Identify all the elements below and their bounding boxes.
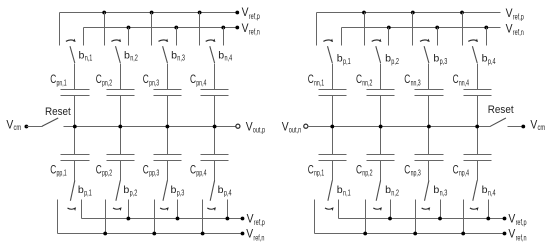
wire: left V_ref,n bottom rail — [58, 233, 243, 235]
switch b_n,3 blade — [425, 180, 429, 200]
switch b_p,1 blade — [70, 180, 74, 200]
svg-text:nn,2: nn,2 — [362, 78, 372, 87]
svg-text:C: C — [96, 162, 102, 176]
svg-text:b: b — [385, 185, 391, 196]
terminal V_cm (left) — [25, 125, 29, 129]
capacitor C_pn,1 bottom lead — [74, 96, 76, 127]
wire: right V_ref,n bottom rail — [315, 233, 505, 235]
capacitor C_pp,1 — [50, 127, 89, 181]
svg-text:b: b — [337, 185, 343, 196]
switch b_n,3 blade — [163, 46, 168, 63]
switch b_n,2 (left top) — [105, 13, 138, 64]
capacitor C_nn,2 plates — [367, 89, 395, 91]
switch b_n,4 (left top) — [200, 13, 233, 64]
switch b_p,4 left contact wire (to V_ref,p) — [462, 13, 464, 46]
capacitor C_np,3 plates — [415, 154, 444, 156]
capacitor C_np,4 bottom lead — [477, 161, 479, 181]
switch b_n,4 blade — [473, 180, 477, 200]
svg-text:pn,1: pn,1 — [57, 78, 67, 87]
switch b_p,3 (left bottom) — [155, 180, 185, 233]
switch b_n,1 (left top) — [60, 13, 93, 64]
switch b_n,3 (right bottom) — [416, 180, 448, 233]
switch b_p,4 left contact wire (to V_ref,n) — [202, 200, 204, 234]
capacitor C_np,1 — [308, 127, 347, 181]
svg-text:b: b — [218, 50, 224, 61]
switch b_p,3 toggle arrow — [420, 40, 428, 41]
svg-text:C: C — [356, 162, 362, 176]
switch b_p,2 blade — [116, 180, 120, 200]
svg-text:b: b — [171, 50, 177, 61]
svg-text:out,n: out,n — [289, 126, 301, 135]
svg-text:C: C — [96, 72, 102, 86]
switch b_n,4 toggle arrow — [470, 208, 478, 209]
switch b_n,1 blade — [70, 46, 75, 63]
switch b_p,3 left contact wire (to V_ref,n) — [154, 200, 156, 234]
switch b_n,2 left contact wire (to V_ref,n) — [365, 200, 367, 234]
svg-text:C: C — [308, 162, 314, 176]
svg-text:n,1: n,1 — [85, 54, 93, 63]
capacitor C_pp,2 plates — [107, 154, 135, 156]
switch b_n,4 (right bottom) — [464, 180, 497, 233]
svg-text:p,4: p,4 — [224, 189, 232, 198]
capacitor C_np,4 top lead — [477, 127, 479, 155]
svg-text:np,4: np,4 — [459, 169, 470, 178]
wire: right V_ref,n top rail — [342, 27, 501, 29]
svg-text:pn,4: pn,4 — [196, 78, 206, 87]
terminal V_ref,n (right bottom) — [503, 232, 507, 236]
svg-text:V: V — [242, 22, 249, 35]
capacitor C_np,4 plates — [464, 154, 492, 156]
svg-text:pp,3: pp,3 — [149, 169, 160, 178]
switch b_n,3 toggle arrow — [422, 208, 430, 209]
capacitor C_np,1 top lead — [332, 127, 334, 155]
junction dots on right middle rail — [330, 125, 334, 129]
wire: right middle rail (node V_out,n) — [308, 126, 491, 128]
terminal V_ref,p (right bottom) — [503, 217, 507, 221]
capacitor C_pp,2 top lead — [120, 127, 122, 155]
switch b_n,1 (right bottom) — [315, 180, 351, 233]
capacitor C_np,2 bottom lead — [380, 161, 382, 181]
switch b_n,2 left contact wire (to V_ref,p) — [104, 13, 106, 46]
switch b_p,3 left contact wire (to V_ref,p) — [412, 13, 414, 46]
switch b_p,3 right contact wire (to V_ref,n) — [437, 28, 439, 46]
capacitor C_nn,1 plates — [319, 89, 347, 91]
svg-text:b: b — [123, 185, 129, 196]
capacitor C_pp,4 plates — [201, 154, 229, 156]
switch b_p,4 blade — [210, 180, 214, 200]
svg-text:p,1: p,1 — [84, 189, 92, 198]
svg-text:nn,3: nn,3 — [411, 78, 421, 87]
svg-text:pn,3: pn,3 — [149, 78, 159, 87]
switch b_n,4 right contact wire (to V_ref,p) — [488, 200, 490, 219]
svg-text:p,1: p,1 — [343, 57, 351, 66]
capacitor C_pp,4 top lead — [214, 127, 216, 155]
svg-text:b: b — [218, 185, 224, 196]
svg-text:pp,1: pp,1 — [57, 169, 68, 178]
svg-text:ref,n: ref,n — [249, 28, 260, 37]
svg-text:n,3: n,3 — [440, 189, 448, 198]
terminal V_ref,n (left bottom) — [241, 232, 245, 236]
switch b_n,3 toggle arrow — [159, 40, 167, 41]
switch b_n,4 left contact wire (to V_ref,n) — [463, 200, 465, 234]
svg-text:ref,n: ref,n — [513, 28, 524, 37]
switch b_p,2 blade — [376, 46, 381, 63]
svg-text:pp,2: pp,2 — [102, 169, 113, 178]
switch b_p,2 left contact wire (to V_ref,n) — [105, 200, 107, 234]
svg-text:ref,p: ref,p — [254, 218, 265, 227]
svg-text:V: V — [506, 22, 513, 35]
svg-text:V: V — [506, 7, 513, 20]
capacitor C_pp,3 bottom lead — [167, 161, 169, 181]
svg-text:ref,p: ref,p — [513, 13, 524, 22]
junction dots on left middle rail — [73, 125, 77, 129]
switch b_p,3 right contact wire (to V_ref,p) — [177, 200, 179, 219]
svg-text:C: C — [50, 162, 56, 176]
capacitor C_pp,1 top lead — [74, 127, 76, 155]
switch b_n,1 right contact wire (to V_ref,p) — [338, 200, 340, 219]
svg-text:ref,n: ref,n — [516, 233, 527, 242]
capacitor C_nn,3 bottom lead — [428, 96, 430, 127]
svg-text:out,p: out,p — [253, 126, 266, 135]
switch Reset (right) blade — [490, 118, 506, 126]
switch b_n,2 right contact wire (to V_ref,n) — [128, 28, 130, 46]
capacitor C_pp,2 — [96, 127, 135, 181]
svg-text:ref,n: ref,n — [253, 233, 264, 242]
svg-text:nn,1: nn,1 — [314, 78, 324, 87]
wire: left V_ref,p bottom rail — [82, 218, 243, 220]
svg-text:pp,4: pp,4 — [196, 169, 207, 178]
switch b_p,2 left contact wire (to V_ref,p) — [364, 13, 366, 46]
svg-text:V: V — [242, 6, 249, 19]
svg-text:C: C — [143, 72, 149, 86]
wire: V_cm stub (right) — [508, 126, 524, 128]
svg-text:b: b — [385, 54, 391, 65]
svg-text:ref,p: ref,p — [516, 218, 527, 227]
svg-text:b: b — [433, 54, 439, 65]
svg-text:V: V — [282, 121, 289, 134]
switch Reset (left) blade — [42, 118, 58, 126]
switch b_p,1 left contact wire (to V_ref,p) — [316, 13, 318, 46]
capacitor C_pn,2 bottom lead — [120, 96, 122, 127]
svg-text:p,3: p,3 — [440, 57, 448, 66]
switch b_n,3 (left top) — [152, 13, 186, 64]
switch b_n,2 toggle arrow — [373, 208, 381, 209]
svg-text:C: C — [143, 162, 149, 176]
switch b_n,1 toggle arrow — [66, 40, 74, 41]
capacitor C_pn,1 top lead — [74, 64, 76, 90]
capacitor C_nn,4 bottom lead — [477, 96, 479, 127]
capacitor C_pn,4 — [190, 64, 229, 127]
capacitor C_pp,3 top lead — [167, 127, 169, 155]
switch b_p,4 (right top) — [463, 13, 497, 66]
switch b_p,2 right contact wire (to V_ref,p) — [128, 200, 130, 219]
wire: left V_ref,p top rail — [60, 12, 238, 14]
capacitor C_np,3 — [404, 127, 443, 181]
svg-text:n,4: n,4 — [225, 54, 233, 63]
svg-text:p,2: p,2 — [391, 57, 399, 66]
capacitor C_pp,2 bottom lead — [120, 161, 122, 181]
switch b_p,2 (left bottom) — [106, 180, 138, 233]
svg-text:np,3: np,3 — [411, 169, 422, 178]
svg-text:b: b — [482, 54, 488, 65]
terminal V_ref,n (left top) — [235, 26, 239, 30]
switch b_p,3 (right top) — [413, 13, 448, 66]
capacitor C_pn,4 bottom lead — [214, 96, 216, 127]
svg-text:V: V — [508, 212, 515, 225]
switch b_n,3 left contact wire (to V_ref,n) — [415, 200, 417, 234]
svg-text:Reset: Reset — [45, 106, 72, 118]
svg-text:C: C — [404, 162, 410, 176]
svg-text:b: b — [78, 185, 84, 196]
switch b_n,4 left contact wire (to V_ref,p) — [199, 13, 201, 46]
terminal V_cm (right) — [521, 125, 525, 129]
capacitor C_np,3 bottom lead — [428, 161, 430, 181]
capacitor C_np,4 — [453, 127, 492, 181]
svg-text:b: b — [337, 54, 343, 65]
svg-text:np,2: np,2 — [362, 169, 373, 178]
terminal V_out,p — [236, 124, 240, 128]
capacitor C_pn,4 top lead — [214, 64, 216, 90]
junction dots on right bottom rails — [388, 217, 392, 221]
svg-text:p,2: p,2 — [130, 189, 138, 198]
svg-text:C: C — [453, 162, 459, 176]
capacitor C_nn,3 top lead — [428, 64, 430, 90]
switch b_n,2 right contact wire (to V_ref,p) — [390, 200, 392, 219]
switch b_n,2 (right bottom) — [366, 180, 400, 233]
switch b_n,1 left contact wire (to V_ref,n) — [314, 200, 316, 234]
svg-text:V: V — [530, 119, 537, 132]
svg-text:np,1: np,1 — [314, 169, 325, 178]
switch b_n,4 toggle arrow — [206, 40, 214, 41]
capacitor C_pn,4 plates — [201, 89, 229, 91]
switch b_p,2 right contact wire (to V_ref,n) — [388, 28, 390, 46]
capacitor C_nn,1 — [308, 64, 347, 127]
switch b_p,2 toggle arrow — [372, 40, 380, 41]
switch b_p,1 (right top) — [317, 13, 351, 66]
capacitor C_pp,3 plates — [154, 154, 182, 156]
svg-text:ref,p: ref,p — [249, 12, 260, 21]
svg-text:b: b — [433, 185, 439, 196]
switch b_n,2 blade — [116, 46, 121, 63]
wire: right V_ref,p bottom rail — [339, 218, 505, 220]
switch b_n,4 right contact wire (to V_ref,n) — [223, 28, 225, 46]
switch b_p,3 toggle arrow — [160, 208, 168, 209]
junction dots on left top rails — [102, 11, 106, 15]
svg-text:C: C — [356, 72, 362, 86]
junction dots on right top rails — [362, 11, 366, 15]
svg-text:V: V — [246, 121, 253, 134]
capacitor C_pn,2 — [96, 64, 135, 127]
capacitor C_pp,3 — [143, 127, 182, 181]
switch b_n,1 toggle arrow — [325, 208, 333, 209]
junction dots on left bottom rails — [126, 217, 130, 221]
switch b_p,1 (left bottom) — [58, 180, 92, 233]
capacitor C_nn,3 — [404, 64, 443, 127]
wire: right V_ref,p top rail — [317, 12, 501, 14]
switch b_p,2 (right top) — [365, 13, 400, 66]
svg-text:C: C — [190, 162, 196, 176]
svg-text:n,3: n,3 — [177, 54, 185, 63]
wire: left middle rail (node V_out,p) — [64, 126, 236, 128]
switch b_p,3 blade — [424, 46, 429, 63]
switch b_p,4 toggle arrow — [468, 40, 476, 41]
capacitor C_pn,2 top lead — [120, 64, 122, 90]
capacitor C_np,1 bottom lead — [332, 161, 334, 181]
capacitor C_np,3 top lead — [428, 127, 430, 155]
svg-text:C: C — [404, 72, 410, 86]
svg-text:n,2: n,2 — [130, 54, 138, 63]
switch b_p,4 blade — [472, 46, 477, 63]
switch b_p,1 right contact wire (to V_ref,n) — [341, 28, 343, 46]
wire: V_cm stub (left) — [27, 126, 43, 128]
svg-text:V: V — [508, 228, 515, 241]
switch b_n,3 right contact wire (to V_ref,p) — [440, 200, 442, 219]
switch b_p,4 right contact wire (to V_ref,n) — [486, 28, 488, 46]
switch b_n,1 left contact wire (to V_ref,p) — [59, 13, 61, 46]
capacitor C_np,2 plates — [367, 154, 395, 156]
svg-text:C: C — [453, 72, 459, 86]
capacitor C_pn,1 — [50, 64, 89, 127]
svg-text:C: C — [308, 72, 314, 86]
capacitor C_pn,3 bottom lead — [167, 96, 169, 127]
capacitor C_pp,4 bottom lead — [214, 161, 216, 181]
switch b_n,3 left contact wire (to V_ref,p) — [151, 13, 153, 46]
svg-text:V: V — [247, 212, 254, 225]
capacitor C_np,2 top lead — [380, 127, 382, 155]
switch b_p,4 right contact wire (to V_ref,p) — [227, 200, 229, 219]
svg-text:Reset: Reset — [488, 104, 515, 116]
capacitor C_pn,3 top lead — [167, 64, 169, 90]
capacitor C_pn,1 plates — [61, 89, 90, 91]
svg-text:p,4: p,4 — [488, 57, 496, 66]
capacitor C_np,1 plates — [319, 154, 347, 156]
capacitor C_nn,3 plates — [415, 89, 444, 91]
svg-text:cm: cm — [538, 123, 546, 132]
wire: left V_ref,n top rail — [84, 27, 238, 29]
svg-text:n,4: n,4 — [488, 189, 496, 198]
capacitor C_nn,4 top lead — [477, 64, 479, 90]
svg-text:b: b — [482, 185, 488, 196]
capacitor C_pn,3 — [143, 64, 182, 127]
terminal V_ref,p (left top) — [235, 11, 239, 15]
capacitor C_pn,3 plates — [154, 89, 182, 91]
switch b_p,4 (left bottom) — [203, 180, 233, 233]
terminal V_ref,p (left bottom) — [241, 217, 245, 221]
switch b_p,1 blade — [328, 46, 333, 63]
switch b_n,1 right contact wire (to V_ref,n) — [83, 28, 85, 46]
capacitor C_pp,1 plates — [61, 154, 90, 156]
svg-text:C: C — [190, 72, 196, 86]
switch b_n,3 right contact wire (to V_ref,n) — [176, 28, 178, 46]
capacitor C_np,2 — [356, 127, 395, 181]
switch b_p,2 toggle arrow — [113, 208, 121, 209]
svg-text:pn,2: pn,2 — [102, 78, 112, 87]
capacitor C_pp,1 bottom lead — [74, 161, 76, 181]
capacitor C_nn,2 top lead — [380, 64, 382, 90]
switch b_n,2 toggle arrow — [111, 40, 119, 41]
switch b_n,2 blade — [376, 180, 380, 200]
capacitor C_nn,1 top lead — [332, 64, 334, 90]
capacitor C_pp,4 — [190, 127, 229, 181]
svg-text:C: C — [50, 72, 56, 86]
switch b_p,1 toggle arrow — [68, 208, 76, 209]
capacitor C_nn,4 — [453, 64, 492, 127]
svg-text:n,2: n,2 — [391, 189, 399, 198]
svg-text:V: V — [6, 119, 13, 132]
capacitor C_nn,4 plates — [464, 89, 492, 91]
switch b_n,1 blade — [328, 180, 332, 200]
capacitor C_nn,1 bottom lead — [332, 96, 334, 127]
switch b_p,3 blade — [163, 180, 167, 200]
svg-text:p,3: p,3 — [177, 189, 185, 198]
switch b_p,1 left contact wire (to V_ref,n) — [57, 200, 59, 234]
switch b_n,4 blade — [210, 46, 215, 63]
svg-text:nn,4: nn,4 — [459, 78, 469, 87]
svg-text:V: V — [246, 228, 253, 241]
capacitor C_nn,2 bottom lead — [380, 96, 382, 127]
svg-text:n,1: n,1 — [343, 189, 351, 198]
capacitor C_pn,2 plates — [107, 89, 135, 91]
switch b_p,4 toggle arrow — [207, 208, 215, 209]
switch b_p,1 toggle arrow — [323, 40, 331, 41]
svg-text:cm: cm — [14, 123, 22, 132]
capacitor C_nn,2 — [356, 64, 395, 127]
switch b_p,1 right contact wire (to V_ref,p) — [81, 200, 83, 219]
